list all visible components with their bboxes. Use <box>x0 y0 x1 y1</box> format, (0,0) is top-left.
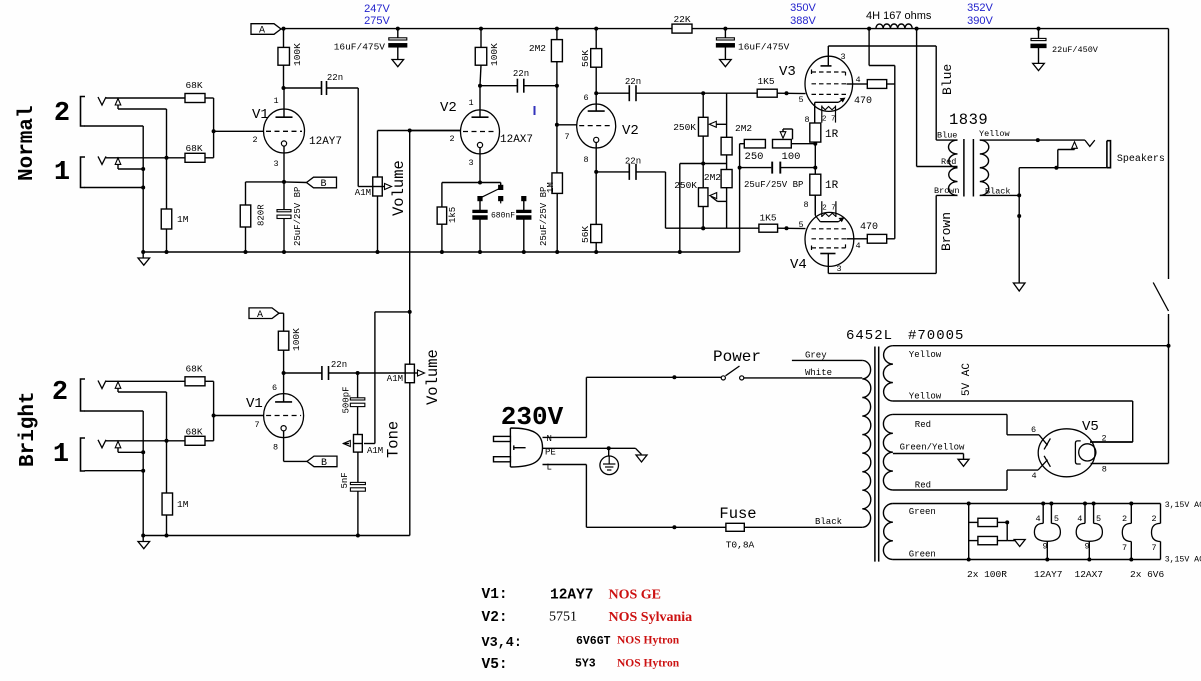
V3 plate <box>821 65 832 67</box>
wire L to fuse <box>543 464 587 466</box>
wire screen supply from rail left of choke <box>868 29 870 66</box>
svg-text:7: 7 <box>254 420 259 430</box>
svg-text:250K: 250K <box>674 180 697 191</box>
svg-text:100K: 100K <box>292 43 303 66</box>
svg-text:B: B <box>321 458 327 469</box>
svg-text:5: 5 <box>1096 514 1101 524</box>
wire upper 22n to 1K5 and V3 <box>636 92 757 94</box>
svg-text:680nF: 680nF <box>491 212 515 221</box>
svg-text:68K: 68K <box>185 143 202 154</box>
resistor 56K V2b cathode <box>595 143 597 172</box>
svg-text:390V: 390V <box>967 15 993 27</box>
node: V1 cathode junction <box>282 180 286 184</box>
svg-text:2x 100R: 2x 100R <box>967 569 1007 580</box>
svg-text:4: 4 <box>1031 471 1036 481</box>
wire Grey lead <box>792 359 862 361</box>
capacitor 22n V2a coupling <box>480 85 517 87</box>
resistor 100K V2a plate load <box>480 29 482 48</box>
wire V2a grid <box>410 130 461 132</box>
node: 5V winding joins standby line <box>1167 344 1171 348</box>
svg-text:2: 2 <box>449 134 454 144</box>
svg-text:16uF/475V: 16uF/475V <box>334 42 386 53</box>
heater 12AX7 <box>1083 502 1087 506</box>
wire shorting contact down to node <box>166 109 168 158</box>
svg-text:Volume: Volume <box>424 349 442 405</box>
svg-text:A1M: A1M <box>355 188 371 198</box>
V5 anode pin 4 <box>1038 460 1048 470</box>
svg-text:NOS Hytron: NOS Hytron <box>617 658 680 670</box>
svg-text:68K: 68K <box>185 80 202 91</box>
svg-text:470: 470 <box>854 96 872 107</box>
capacitor 25uF/25V BP second bypass option <box>521 196 526 201</box>
svg-text:V1:: V1: <box>482 587 508 603</box>
svg-text:2M2: 2M2 <box>735 123 752 134</box>
capacitor 680nF V2a cathode bypass <box>479 201 481 211</box>
svg-text:5: 5 <box>1054 514 1059 524</box>
wire 22n to bright volume <box>329 372 406 374</box>
svg-text:2: 2 <box>252 135 257 145</box>
svg-text:500pF: 500pF <box>342 386 352 413</box>
svg-text:1: 1 <box>468 98 473 108</box>
svg-text:5: 5 <box>798 220 803 230</box>
wiper 250K lower <box>718 200 727 202</box>
svg-text:1R: 1R <box>825 180 839 192</box>
svg-text:25uF/25V BP: 25uF/25V BP <box>744 180 803 190</box>
wire pot junction to ground <box>680 163 703 165</box>
svg-text:3: 3 <box>836 264 841 274</box>
svg-text:22n: 22n <box>327 73 343 83</box>
svg-text:White: White <box>805 368 832 378</box>
rheostat 100 hum balance <box>773 139 792 148</box>
transformer 6452L primary winding <box>862 360 871 527</box>
plug prong PE <box>514 447 526 449</box>
tube V5 5Y3 rectifier <box>1038 429 1095 477</box>
wire Red HT bottom to V5 pin 4 <box>893 489 1007 491</box>
switch standby <box>1153 283 1168 312</box>
wire volume bottom to ground <box>377 196 379 252</box>
svg-text:2M2: 2M2 <box>704 172 721 183</box>
wire bright volume top to V2 grid node <box>409 131 411 365</box>
svg-text:6: 6 <box>583 93 588 103</box>
plug prong L <box>494 457 511 462</box>
svg-text:22n: 22n <box>331 360 347 370</box>
wire Yellow 5V top to standby line <box>893 345 1169 347</box>
svg-text:B: B <box>320 179 326 190</box>
svg-text:6: 6 <box>1031 425 1036 435</box>
wire Black to speaker sleeve <box>1018 168 1020 196</box>
wiper 250K upper <box>712 123 727 125</box>
jack 2 bright tip contact <box>98 381 106 389</box>
wire Green/Yellow center tap to ground <box>893 453 964 455</box>
resistor 68K normal input 2 <box>185 94 205 103</box>
node: V1 plate junction <box>282 86 286 90</box>
svg-text:16uF/475V: 16uF/475V <box>738 42 790 53</box>
svg-text:V5: V5 <box>1082 419 1099 435</box>
resistor 1M V2b grid leak <box>556 125 558 173</box>
svg-text:V2: V2 <box>622 123 639 139</box>
transformer 6452L core <box>874 347 876 562</box>
tube V2 triode (first half, 12AX7) <box>461 110 500 154</box>
svg-text:3,15V AC: 3,15V AC <box>1165 501 1201 510</box>
svg-text:1: 1 <box>53 440 69 470</box>
wire 68K outputs to V1 grid <box>205 97 214 99</box>
svg-text:Green: Green <box>909 507 936 517</box>
V5 anode pin 6 <box>1039 435 1048 446</box>
capacitor 22n normal coupling <box>284 87 322 89</box>
wire heater bus bottom 3.15V <box>893 559 1161 561</box>
transformer 1839 secondary winding <box>980 140 989 195</box>
capacitor 25uF/25V BP power tube cathode bypass <box>740 167 772 169</box>
resistor 68K bright input 1 <box>185 436 205 445</box>
resistor 68K bright input 2 <box>185 377 205 386</box>
switch: V2a cathode bypass selector <box>480 182 501 184</box>
svg-text:4H 167 ohms: 4H 167 ohms <box>866 10 932 22</box>
svg-text:Tone: Tone <box>385 421 403 458</box>
svg-text:250: 250 <box>745 151 764 163</box>
ground symbol normal input <box>142 252 144 258</box>
heater 12AY7 <box>1041 502 1045 506</box>
V4 screen grid dashed (pin 4) <box>812 238 847 240</box>
svg-text:PE: PE <box>545 448 556 458</box>
V3 beam plates dashed <box>812 70 846 76</box>
inductor choke 4H 167 ohms <box>876 24 912 29</box>
jack 2 normal tip contact <box>98 97 106 105</box>
V3 heater <box>821 106 823 123</box>
fuse T0,8A <box>726 523 744 531</box>
resistor 820R V1 cathode <box>283 146 285 182</box>
wire 1K5 to V4 pin 5 <box>778 227 806 229</box>
svg-text:6: 6 <box>272 383 277 393</box>
svg-text:820R: 820R <box>257 204 267 226</box>
svg-text:352V: 352V <box>967 2 993 14</box>
svg-text:A: A <box>259 26 265 37</box>
svg-text:1K5: 1K5 <box>757 76 774 87</box>
svg-text:V1: V1 <box>246 396 263 412</box>
tube V1 triode (normal half, 12AY7) <box>264 109 305 153</box>
wire 22n out / 2M2 to V2b grid node <box>524 85 557 87</box>
potentiometer 250K upper (phase splitter) <box>702 93 704 117</box>
wire Yellow 5V bottom to V5 pin 2 <box>893 400 1133 402</box>
wire 22n to normal volume <box>327 87 359 89</box>
resistor 250 cathode bias <box>744 139 765 148</box>
svg-text:22n: 22n <box>513 69 529 79</box>
svg-text:V5:: V5: <box>482 657 508 673</box>
potentiometer A1M bright volume <box>405 364 414 383</box>
V3 control grid dashed (pin 5) <box>812 93 847 95</box>
switch power <box>721 376 725 380</box>
svg-text:22K: 22K <box>673 14 690 25</box>
jack 1 bright tip contact <box>98 440 106 448</box>
node: junction between 250K pots <box>702 136 704 188</box>
capacitor 22n bright coupling <box>284 372 322 374</box>
potentiometer A1M tone <box>354 435 363 453</box>
svg-text:V1: V1 <box>252 107 269 123</box>
svg-text:2x 6V6: 2x 6V6 <box>1130 569 1165 580</box>
svg-text:N: N <box>547 434 552 444</box>
svg-text:247V: 247V <box>364 3 390 15</box>
svg-text:T0,8A: T0,8A <box>726 540 755 551</box>
svg-text:2: 2 <box>1151 514 1156 524</box>
svg-text:4: 4 <box>1035 514 1040 524</box>
svg-text:Yellow: Yellow <box>979 129 1011 139</box>
svg-text:12AY7: 12AY7 <box>550 588 594 604</box>
svg-text:250K: 250K <box>673 122 696 133</box>
svg-text:100K: 100K <box>489 43 500 66</box>
wire mid junction to 2M2 chain <box>703 163 726 165</box>
resistor 1K5 V4 grid stopper <box>759 224 778 232</box>
svg-text:8: 8 <box>803 200 808 210</box>
svg-text:Red: Red <box>915 420 931 430</box>
svg-text:2 7: 2 7 <box>822 116 836 124</box>
svg-text:2: 2 <box>54 99 70 129</box>
svg-text:Bright: Bright <box>17 391 40 467</box>
svg-text:8: 8 <box>273 443 278 453</box>
svg-text:Grey: Grey <box>805 351 827 361</box>
resistor 1k5 V2a cathode <box>479 148 481 183</box>
wire branch to tone wiper <box>375 311 410 313</box>
svg-text:470: 470 <box>860 222 878 233</box>
V3 screen grid dashed (pin 4) <box>812 83 847 85</box>
svg-text:8: 8 <box>583 155 588 165</box>
wire bright volume bottom to ground <box>409 383 411 536</box>
wire V5 pin 8 to standby <box>1091 463 1169 465</box>
wire V4 plate to output transformer Brown <box>828 272 936 274</box>
svg-text:3: 3 <box>840 52 845 62</box>
svg-text:V2:: V2: <box>482 610 508 626</box>
resistor 56K V2b plate load <box>595 29 597 49</box>
node: tone branch junction <box>408 310 412 314</box>
stray blue mark <box>534 106 536 115</box>
jack 1 normal shorting contact <box>115 158 121 165</box>
svg-text:5Y3: 5Y3 <box>575 658 596 671</box>
plug prong N <box>494 436 511 441</box>
wire bright jack sleeves to ground <box>85 410 144 412</box>
node B tag (bright cathode) <box>283 431 285 462</box>
svg-text:4: 4 <box>1077 514 1082 524</box>
svg-text:12AX7: 12AX7 <box>500 134 533 146</box>
svg-text:7: 7 <box>1122 543 1127 553</box>
resistor 1R V4 cathode <box>814 168 816 175</box>
jack 1 normal tip contact <box>98 156 106 164</box>
ground at 100R junction <box>1007 540 1020 542</box>
switch open post <box>498 196 503 201</box>
svg-text:5V AC: 5V AC <box>961 363 973 396</box>
heater 6V6 second <box>1160 504 1162 524</box>
tube V1 triode (bright half) <box>264 394 304 438</box>
V3 cathode bar and arrow <box>815 101 839 103</box>
svg-text:1M: 1M <box>177 499 189 510</box>
wire B+ to output transformer Red center tap <box>916 29 918 167</box>
wire secondary Black <box>980 194 1019 196</box>
svg-text:A1M: A1M <box>387 374 403 384</box>
svg-text:2: 2 <box>1122 514 1127 524</box>
resistor 2M2 feedback lower <box>726 155 728 170</box>
wire Black to ground <box>1018 195 1020 283</box>
jack 1 bright shorting contact <box>115 441 121 448</box>
svg-text:Blue: Blue <box>937 131 957 141</box>
svg-text:7: 7 <box>564 132 569 142</box>
svg-text:8: 8 <box>804 115 809 125</box>
svg-text:12AX7: 12AX7 <box>1075 569 1104 580</box>
wire volume top to V2 grid node <box>377 131 379 178</box>
svg-text:Black: Black <box>815 517 842 527</box>
wire jack2 bright tip to 68K <box>106 380 185 382</box>
svg-text:22n: 22n <box>625 77 641 87</box>
svg-text:Yellow: Yellow <box>909 350 942 360</box>
wire jack1 tip to 68K (node with jack2 contact) <box>106 157 185 159</box>
svg-text:25uF/25V BP: 25uF/25V BP <box>293 187 303 246</box>
svg-text:A1M: A1M <box>367 446 383 456</box>
rheostat wiper bracket <box>782 129 784 133</box>
wire 1K5 to V3 pin 5 <box>777 92 805 94</box>
svg-text:350V: 350V <box>790 2 816 14</box>
svg-text:9: 9 <box>1042 542 1047 552</box>
resistor 1R V3 cathode <box>810 123 821 142</box>
node A tag (normal channel plate supply) <box>251 24 281 35</box>
node: 25uF tap on cathode return <box>738 166 742 170</box>
transformer 1839 core <box>963 139 965 197</box>
wire bright 68K outputs to V1 grid <box>205 380 214 382</box>
svg-text:1k5: 1k5 <box>448 207 458 223</box>
jack input 1 normal body <box>81 157 86 188</box>
wire bright ground bus <box>143 535 410 537</box>
svg-text:22n: 22n <box>625 157 641 167</box>
V4 control grid dashed (pin 5) <box>812 228 847 230</box>
resistor 22K (series in rail) <box>672 24 692 33</box>
capacitor 16uF/475V second filter <box>724 29 726 38</box>
resistor 68K normal input 1 <box>185 153 205 162</box>
svg-text:V2: V2 <box>440 100 457 116</box>
svg-text:#70005: #70005 <box>908 328 964 344</box>
resistor 1M normal grid leak <box>166 158 168 209</box>
capacitor 25uF/25V BP V1 cathode bypass <box>283 182 285 210</box>
capacitor 5nF tone to ground <box>357 452 359 482</box>
wire N to power switch <box>543 436 587 438</box>
jack input 2 normal body <box>81 97 86 127</box>
wire: B+ supply rail <box>284 28 673 30</box>
svg-text:100: 100 <box>782 151 801 163</box>
wire 250/100 chain left end down to ground bus <box>740 143 745 145</box>
heater 6V6 first <box>1129 502 1133 506</box>
tube V4 6V6GT <box>805 212 854 266</box>
svg-text:56K: 56K <box>580 50 591 67</box>
svg-text:3: 3 <box>273 159 278 169</box>
node: V2b plate junction <box>594 91 598 95</box>
resistor 1K5 V3 grid stopper <box>757 89 777 97</box>
svg-text:68K: 68K <box>185 427 202 438</box>
resistor 100K bright plate load <box>283 313 285 331</box>
svg-text:100K: 100K <box>291 328 302 351</box>
wire switch to transformer White <box>744 377 863 379</box>
jack input 2 bright body <box>81 379 86 411</box>
svg-text:Red: Red <box>941 157 956 167</box>
svg-text:3,15V AC: 3,15V AC <box>1165 556 1201 565</box>
capacitor 22n phase splitter lower <box>596 171 629 173</box>
svg-text:1R: 1R <box>825 129 839 141</box>
node: bright plate junction <box>282 371 286 375</box>
V5 filament <box>1075 441 1080 464</box>
capacitor 22uF/450V output filter <box>1038 29 1040 39</box>
potentiometer A1M normal volume <box>373 177 383 196</box>
jack 2 normal shorting contact <box>115 99 121 106</box>
svg-text:Fuse: Fuse <box>719 505 756 523</box>
resistors 2x 100R hum balance <box>968 504 970 560</box>
svg-text:25uF/25V BP: 25uF/25V BP <box>539 187 549 246</box>
jack speakers shorting contact <box>1072 142 1078 149</box>
svg-text:9: 9 <box>1084 542 1089 552</box>
resistor 470 V3 screen <box>867 80 886 89</box>
capacitor 16uF/475V first filter <box>397 29 399 38</box>
svg-text:Speakers: Speakers <box>1117 153 1165 165</box>
node B tag (normal cathode) <box>284 181 307 184</box>
svg-text:1K5: 1K5 <box>759 213 776 224</box>
capacitor 22n phase splitter upper <box>596 92 629 94</box>
wire V3 plate to output transformer Blue <box>828 45 936 47</box>
svg-text:V4: V4 <box>790 257 807 273</box>
svg-text:Brown: Brown <box>939 212 954 251</box>
jack speakers tip contact <box>1085 140 1095 146</box>
wire jack1 bright tip to 68K <box>106 440 185 442</box>
wire lower 22n to lower 1K5 <box>636 171 666 173</box>
resistor 2M2 V2b grid from rail <box>556 29 558 40</box>
resistor 1M bright grid leak <box>166 441 168 493</box>
svg-text:NOS Hytron: NOS Hytron <box>617 635 680 647</box>
capacitor 500pF tone <box>357 373 359 398</box>
svg-text:2: 2 <box>52 378 68 408</box>
wire 100 right end to 1R chain <box>791 143 815 145</box>
svg-text:Green: Green <box>909 550 936 560</box>
svg-text:4: 4 <box>855 241 860 251</box>
svg-text:12AY7: 12AY7 <box>1034 569 1063 580</box>
svg-text:388V: 388V <box>790 15 816 27</box>
svg-text:275V: 275V <box>364 15 390 27</box>
svg-text:22uF/450V: 22uF/450V <box>1052 45 1099 55</box>
wire fuse to transformer Black <box>744 526 862 528</box>
svg-text:68K: 68K <box>185 364 202 375</box>
wire Red HT top to V5 pin 6 <box>893 413 1007 415</box>
svg-text:5nF: 5nF <box>340 472 350 488</box>
svg-text:1: 1 <box>273 96 278 106</box>
V4 cathode bar and arrow <box>814 195 816 215</box>
svg-text:7: 7 <box>1151 543 1156 553</box>
svg-text:6V6GT: 6V6GT <box>576 635 611 648</box>
resistor 2M2 feedback upper <box>726 93 728 137</box>
node: V2a plate junction <box>478 84 482 88</box>
svg-text:Volume: Volume <box>390 160 408 216</box>
wire PE to earth <box>543 447 636 449</box>
transformer 1839 primary winding <box>948 140 957 195</box>
tube V2 triode (second half) <box>577 104 616 148</box>
wire secondary Yellow to speaker jack <box>980 139 1085 141</box>
svg-text:Yellow: Yellow <box>909 392 942 402</box>
svg-text:1839: 1839 <box>949 111 988 129</box>
jack speakers body <box>1107 141 1111 168</box>
resistor 470 V4 screen <box>867 234 886 243</box>
node A tag (bright) <box>249 308 279 319</box>
svg-text:8: 8 <box>1102 465 1107 475</box>
wire standby line from rail <box>1168 29 1170 279</box>
potentiometer 250K lower (phase splitter) <box>698 188 708 207</box>
svg-text:12AY7: 12AY7 <box>309 136 342 148</box>
node: junction dots on B+ rail <box>282 27 286 31</box>
svg-text:1: 1 <box>54 158 70 188</box>
V4 heater <box>821 201 823 217</box>
svg-text:56K: 56K <box>580 226 591 243</box>
V4 beam plates dashed <box>812 244 846 250</box>
jack 2 bright shorting contact <box>115 382 121 389</box>
transformer HT winding <box>883 414 893 490</box>
svg-text:Power: Power <box>713 348 761 366</box>
